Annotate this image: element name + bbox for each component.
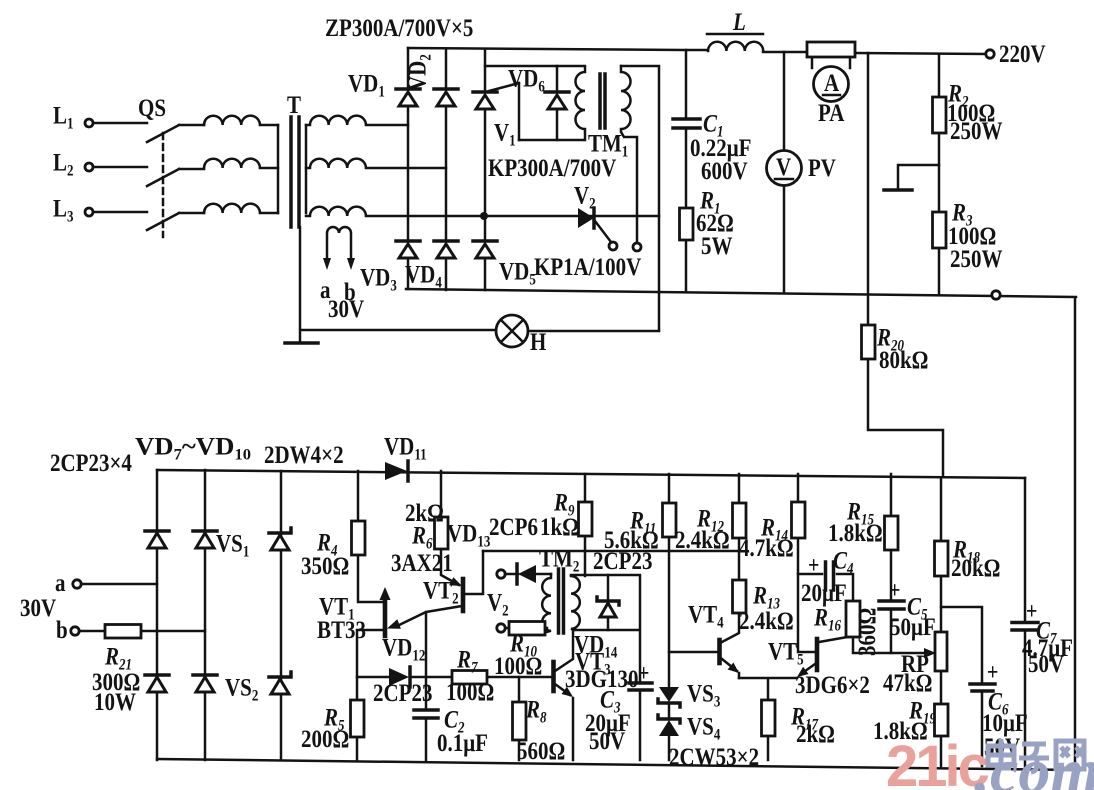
svg-text:L2: L2 — [53, 149, 73, 180]
svg-text:V1: V1 — [494, 119, 516, 150]
svg-text:1.8kΩ: 1.8kΩ — [828, 519, 883, 547]
svg-text:C4: C4 — [833, 547, 853, 578]
svg-text:20kΩ: 20kΩ — [951, 554, 1000, 582]
svg-text:250W: 250W — [950, 245, 1002, 273]
svg-text:VT4: VT4 — [688, 601, 724, 632]
svg-text:VS3: VS3 — [687, 680, 720, 711]
svg-text:47kΩ: 47kΩ — [883, 669, 932, 697]
svg-text:+: + — [808, 551, 819, 578]
svg-text:560Ω: 560Ω — [517, 737, 565, 765]
svg-text:30V: 30V — [328, 295, 364, 323]
svg-text:V2: V2 — [487, 589, 509, 620]
svg-text:VD7~VD10: VD7~VD10 — [135, 433, 251, 464]
svg-text:VD11: VD11 — [384, 433, 427, 464]
svg-text:50V: 50V — [589, 727, 625, 755]
svg-text:L: L — [732, 8, 746, 36]
svg-text:VS4: VS4 — [687, 713, 720, 744]
svg-text:TM2: TM2 — [539, 545, 579, 576]
svg-text:5W: 5W — [701, 232, 732, 260]
svg-text:100Ω: 100Ω — [494, 652, 542, 680]
svg-text:VD12: VD12 — [382, 634, 425, 665]
svg-text:VD1: VD1 — [348, 70, 385, 101]
svg-text:ZP300A/700V×5: ZP300A/700V×5 — [325, 14, 473, 42]
svg-text:30V: 30V — [20, 594, 56, 622]
svg-text:2CP23: 2CP23 — [373, 679, 432, 707]
svg-text:KP300A/700V: KP300A/700V — [488, 154, 617, 182]
svg-text:V: V — [776, 153, 791, 181]
svg-text:b: b — [56, 616, 68, 644]
svg-text:360Ω: 360Ω — [853, 608, 881, 656]
svg-text:2CP23×4: 2CP23×4 — [50, 449, 132, 477]
svg-text:0.1μF: 0.1μF — [437, 729, 488, 757]
svg-text:+: + — [638, 659, 649, 686]
svg-text:200Ω: 200Ω — [301, 725, 349, 753]
svg-text:2CW53×2: 2CW53×2 — [669, 743, 759, 771]
svg-text:.com: .com — [974, 735, 1094, 790]
svg-text:10W: 10W — [94, 688, 136, 716]
svg-text:100Ω: 100Ω — [446, 678, 494, 706]
svg-text:A: A — [824, 69, 839, 97]
svg-text:+: + — [987, 658, 998, 685]
svg-text:VS1: VS1 — [216, 530, 249, 561]
svg-text:VD3: VD3 — [360, 264, 397, 295]
svg-text:R8: R8 — [525, 696, 546, 727]
svg-text:50V: 50V — [1028, 650, 1064, 678]
svg-text:80kΩ: 80kΩ — [879, 346, 928, 374]
svg-text:3DG6×2: 3DG6×2 — [795, 671, 870, 699]
svg-text:KP1A/100V: KP1A/100V — [534, 253, 642, 281]
svg-text:1kΩ: 1kΩ — [540, 513, 579, 541]
svg-text:4.7kΩ: 4.7kΩ — [739, 534, 794, 562]
svg-text:3AX21: 3AX21 — [391, 549, 453, 577]
svg-text:BT33: BT33 — [317, 616, 366, 644]
svg-text:R16: R16 — [813, 604, 842, 635]
svg-text:2.4kΩ: 2.4kΩ — [675, 526, 730, 554]
svg-text:2kΩ: 2kΩ — [796, 720, 835, 748]
svg-text:220V: 220V — [999, 40, 1046, 68]
svg-text:5.6kΩ: 5.6kΩ — [604, 526, 659, 554]
svg-text:PA: PA — [818, 99, 845, 127]
svg-text:H: H — [530, 328, 546, 356]
svg-text:VD6: VD6 — [508, 65, 545, 96]
svg-text:50μF: 50μF — [890, 613, 936, 641]
svg-text:T: T — [287, 91, 301, 119]
svg-text:250W: 250W — [950, 117, 1002, 145]
svg-text:L1: L1 — [53, 102, 73, 133]
svg-text:R7: R7 — [456, 646, 478, 677]
svg-text:VD4: VD4 — [405, 261, 442, 292]
svg-text:2DW4×2: 2DW4×2 — [264, 441, 344, 469]
svg-text:VD13: VD13 — [447, 520, 490, 551]
svg-text:+: + — [889, 576, 900, 603]
svg-text:QS: QS — [138, 94, 166, 122]
svg-text:600V: 600V — [701, 157, 748, 185]
svg-text:PV: PV — [808, 154, 836, 182]
svg-text:VS2: VS2 — [225, 674, 258, 705]
svg-text:a: a — [55, 569, 66, 597]
svg-text:2.4kΩ: 2.4kΩ — [739, 607, 794, 635]
svg-text:2CP6: 2CP6 — [489, 513, 538, 541]
svg-text:L3: L3 — [53, 195, 73, 226]
svg-text:VD5: VD5 — [499, 258, 536, 289]
svg-text:V2: V2 — [574, 182, 596, 213]
svg-text:350Ω: 350Ω — [301, 552, 349, 580]
